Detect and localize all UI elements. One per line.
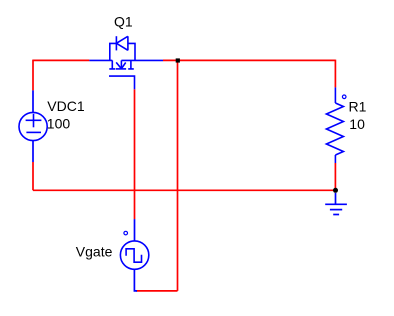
R1 lead bottom (334, 155, 336, 163)
svg-text:VDC1: VDC1 (47, 98, 85, 114)
node junction bottom right (333, 188, 338, 193)
Q1 diode cathode bar (115, 36, 117, 50)
Q1 drain lead (121, 59, 163, 61)
R1 polarity dot (342, 95, 346, 99)
Q1 middle stem (120, 60, 122, 68)
Vgate lead bottom blue (134, 269, 137, 291)
Vgate polarity dot (124, 231, 128, 235)
voltage source Vgate (120, 231, 148, 269)
Q1 left contact (109, 60, 115, 69)
ground (325, 193, 347, 215)
R1 lead top (334, 87, 336, 103)
Q1 middle tick (116, 68, 126, 70)
Q1 arrow barbs (116, 62, 126, 68)
wire bottom rail (33, 189, 336, 191)
wire right rail red lower (334, 163, 336, 190)
svg-text:100: 100 (47, 115, 71, 131)
VDC1 lead bottom blue (32, 141, 34, 162)
VDC1 lead top blue (32, 90, 34, 112)
node junction top (176, 58, 180, 62)
R1 zigzag (326, 103, 343, 155)
Q1 gate plate (109, 76, 135, 89)
wire vgate bottom horizontal red (136, 290, 178, 292)
voltage source VDC1 (19, 112, 47, 140)
Vgate lead top blue (134, 219, 136, 241)
wire right rail red upper (334, 60, 336, 88)
Q1 right contact (128, 60, 134, 69)
Q1 diode triangle (116, 36, 128, 50)
transistor Q1 (MOSFET with body diode) (89, 36, 163, 89)
Q1 right post (128, 43, 135, 60)
svg-text:R1: R1 (349, 99, 367, 115)
Q1 source lead (89, 59, 112, 61)
wire top rail left red segment (33, 59, 89, 61)
wire top rail right red segment (163, 59, 335, 61)
wire gate vertical red (134, 89, 136, 219)
resistor R1 (326, 87, 346, 163)
svg-text:Vgate: Vgate (76, 244, 113, 260)
wire left rail red upper (32, 60, 34, 91)
svg-text:10: 10 (349, 116, 365, 132)
svg-text:Q1: Q1 (114, 13, 133, 29)
wire left rail red lower (32, 162, 34, 190)
wire vgate right vertical red (177, 60, 179, 291)
Q1 left post (110, 43, 117, 60)
